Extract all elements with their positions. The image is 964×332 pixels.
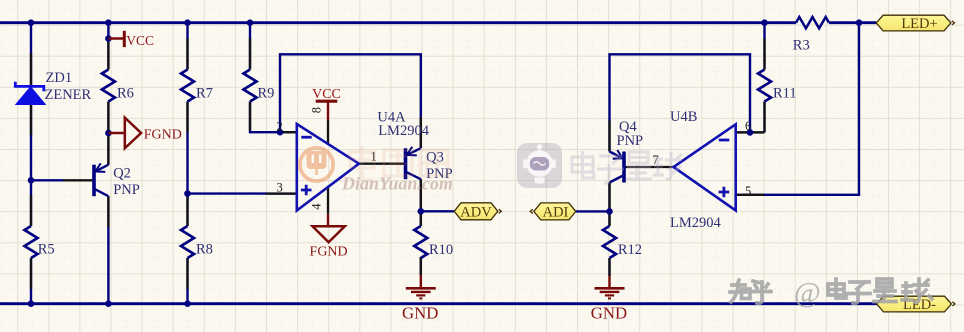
ground GND symbol 1 (406, 275, 436, 298)
junction node: Q2 collector / bottom rail (105, 300, 112, 307)
svg-text:R9: R9 (258, 86, 275, 102)
svg-text:ZD1: ZD1 (46, 70, 73, 86)
junction node: R8 column / bottom rail (184, 300, 191, 307)
svg-text:R6: R6 (117, 86, 134, 102)
svg-text:VCC: VCC (126, 33, 154, 48)
junction node: left column / top rail (28, 19, 35, 26)
transistor Q2 (94, 163, 108, 196)
pin lead U4A pin 3 (266, 192, 297, 194)
svg-text:GND: GND (591, 304, 627, 323)
svg-text:VCC: VCC (312, 87, 341, 102)
junction node: ADI tap on Q4 collector (606, 208, 613, 215)
pin lead Q2 (63, 134, 108, 227)
watermark faint CJK dianyuanwang (350, 146, 448, 180)
pin lead U4A pin 1 / Q3 base (359, 163, 406, 165)
wire Q4 collector to R12 (608, 183, 610, 277)
op-amp U4B (674, 124, 736, 210)
svg-text:PNP: PNP (113, 182, 140, 198)
resistor R9 (244, 70, 257, 102)
pin lead Q4 (608, 121, 610, 212)
transistor Q3 (406, 147, 421, 179)
pin lead zener ZD1 (30, 53, 32, 135)
svg-text:R3: R3 (793, 38, 810, 54)
power FGND symbol U4A pin4 (327, 214, 329, 226)
pin lead R8 (186, 195, 188, 289)
pin lead R11 (763, 39, 765, 133)
power FGND symbol left (108, 118, 141, 149)
junction node: ADV tap on Q3 collector (418, 208, 425, 215)
watermark robot icon (517, 143, 562, 188)
resistor R5 (25, 226, 38, 258)
svg-text:LED+: LED+ (901, 16, 937, 32)
junction node: R7 column / top rail (184, 19, 191, 26)
wire R6/Q2 column (107, 23, 109, 304)
wire R7/R8 column (186, 23, 188, 304)
pin lead U4B pin 6 and pin 5 (736, 132, 765, 194)
wire pin6 stub (736, 131, 765, 133)
pin lead Q3 (420, 117, 422, 210)
svg-text:GND: GND (402, 304, 438, 323)
watermark DianYuan logo circle (300, 148, 333, 181)
ground GND symbol 2 (595, 276, 625, 298)
svg-text:8: 8 (310, 107, 324, 113)
watermark faint CJK dianzixingqiu center (572, 151, 682, 183)
watermark zhihu text bottom right (730, 279, 932, 303)
resistor R8 (181, 226, 194, 258)
wire R9 column (250, 23, 297, 133)
junction node: U4B feedback / pin6 stub (747, 129, 754, 136)
svg-text:R8: R8 (196, 242, 213, 258)
pin lead R9 (249, 39, 251, 131)
wire pin5 to right column (736, 23, 859, 195)
wire left column (30, 23, 32, 304)
junction node: Q2 base tap on left column (28, 177, 35, 184)
svg-text:2: 2 (277, 120, 283, 134)
svg-text:PNP: PNP (617, 133, 644, 149)
junction node: left column / bottom rail (28, 300, 35, 307)
port LED- (877, 296, 955, 313)
wire Q4 emitter feedback (610, 54, 751, 151)
junction node: R6 column / top rail (105, 19, 112, 26)
pin lead U4A pin 2 (277, 131, 297, 133)
svg-text:3: 3 (277, 181, 283, 195)
svg-text:LM2904: LM2904 (378, 123, 430, 139)
op-amp U4A (297, 124, 359, 211)
power VCC symbol left (108, 31, 124, 47)
wire pin3 input (188, 192, 297, 194)
wire Q3 collector to ADV and R10 (420, 179, 422, 275)
wire bottom rail LED- net (0, 302, 877, 305)
junction node: FGND tap on R6 column (105, 130, 112, 137)
svg-text:R11: R11 (773, 86, 797, 102)
svg-text:ADI: ADI (543, 204, 569, 220)
power VCC symbol U4A pin8 (327, 102, 329, 120)
pin lead R5 (30, 195, 32, 289)
resistor R11 (758, 70, 771, 102)
wire ADI (576, 210, 610, 212)
resistor R6 (102, 70, 115, 102)
pin lead U4B pin 7 / Q4 base (624, 166, 674, 168)
resistor R12 (603, 226, 616, 258)
junction node: R11 column / top rail (761, 19, 768, 26)
transistor Q4 (610, 150, 625, 182)
pin lead R12 (608, 211, 610, 276)
resistor R10 (414, 226, 427, 258)
junction node: VCC tap on R6 column (105, 35, 112, 42)
svg-text:Q2: Q2 (113, 165, 131, 181)
pin lead R10 (420, 211, 422, 275)
svg-text:R12: R12 (618, 242, 642, 258)
svg-text:@: @ (794, 277, 821, 309)
wire R11 column (763, 23, 765, 133)
svg-text:FGND: FGND (310, 245, 348, 260)
svg-text:R10: R10 (429, 242, 453, 258)
wire ADV (421, 210, 454, 212)
svg-text:DianYuan.com: DianYuan.com (341, 174, 453, 194)
junction node: U4A feedback / pin2 wire (277, 129, 284, 136)
svg-text:5: 5 (745, 184, 751, 198)
pin lead R6 (107, 39, 109, 134)
pin leads (black) (31, 39, 765, 290)
wire U4A feedback (280, 54, 421, 148)
port ADI (530, 203, 576, 221)
svg-text:R7: R7 (196, 86, 213, 102)
svg-text:ADV: ADV (460, 204, 492, 220)
svg-text:U4B: U4B (670, 109, 697, 125)
svg-text:ZENER: ZENER (45, 87, 92, 103)
pin lead R7 (186, 39, 188, 133)
zener ZD1 (15, 82, 45, 105)
svg-text:6: 6 (745, 119, 751, 133)
svg-text:LM2904: LM2904 (670, 215, 722, 231)
resistor R3 (796, 17, 829, 28)
pin lead U4A pin 8 and pin 4 (327, 121, 329, 214)
wire top rail (0, 21, 876, 24)
junction node: LED+ column / top rail (856, 19, 863, 26)
resistor R7 (181, 70, 194, 102)
svg-text:4: 4 (310, 203, 324, 210)
port ADV (454, 203, 501, 221)
port LED+ (876, 15, 954, 32)
wire Q2 base (31, 179, 63, 181)
svg-text:FGND: FGND (144, 128, 182, 143)
svg-text:R5: R5 (38, 242, 55, 258)
junction node: pin3 tap on R7/R8 column (184, 190, 191, 197)
junction node: R9 column / top rail (247, 19, 254, 26)
